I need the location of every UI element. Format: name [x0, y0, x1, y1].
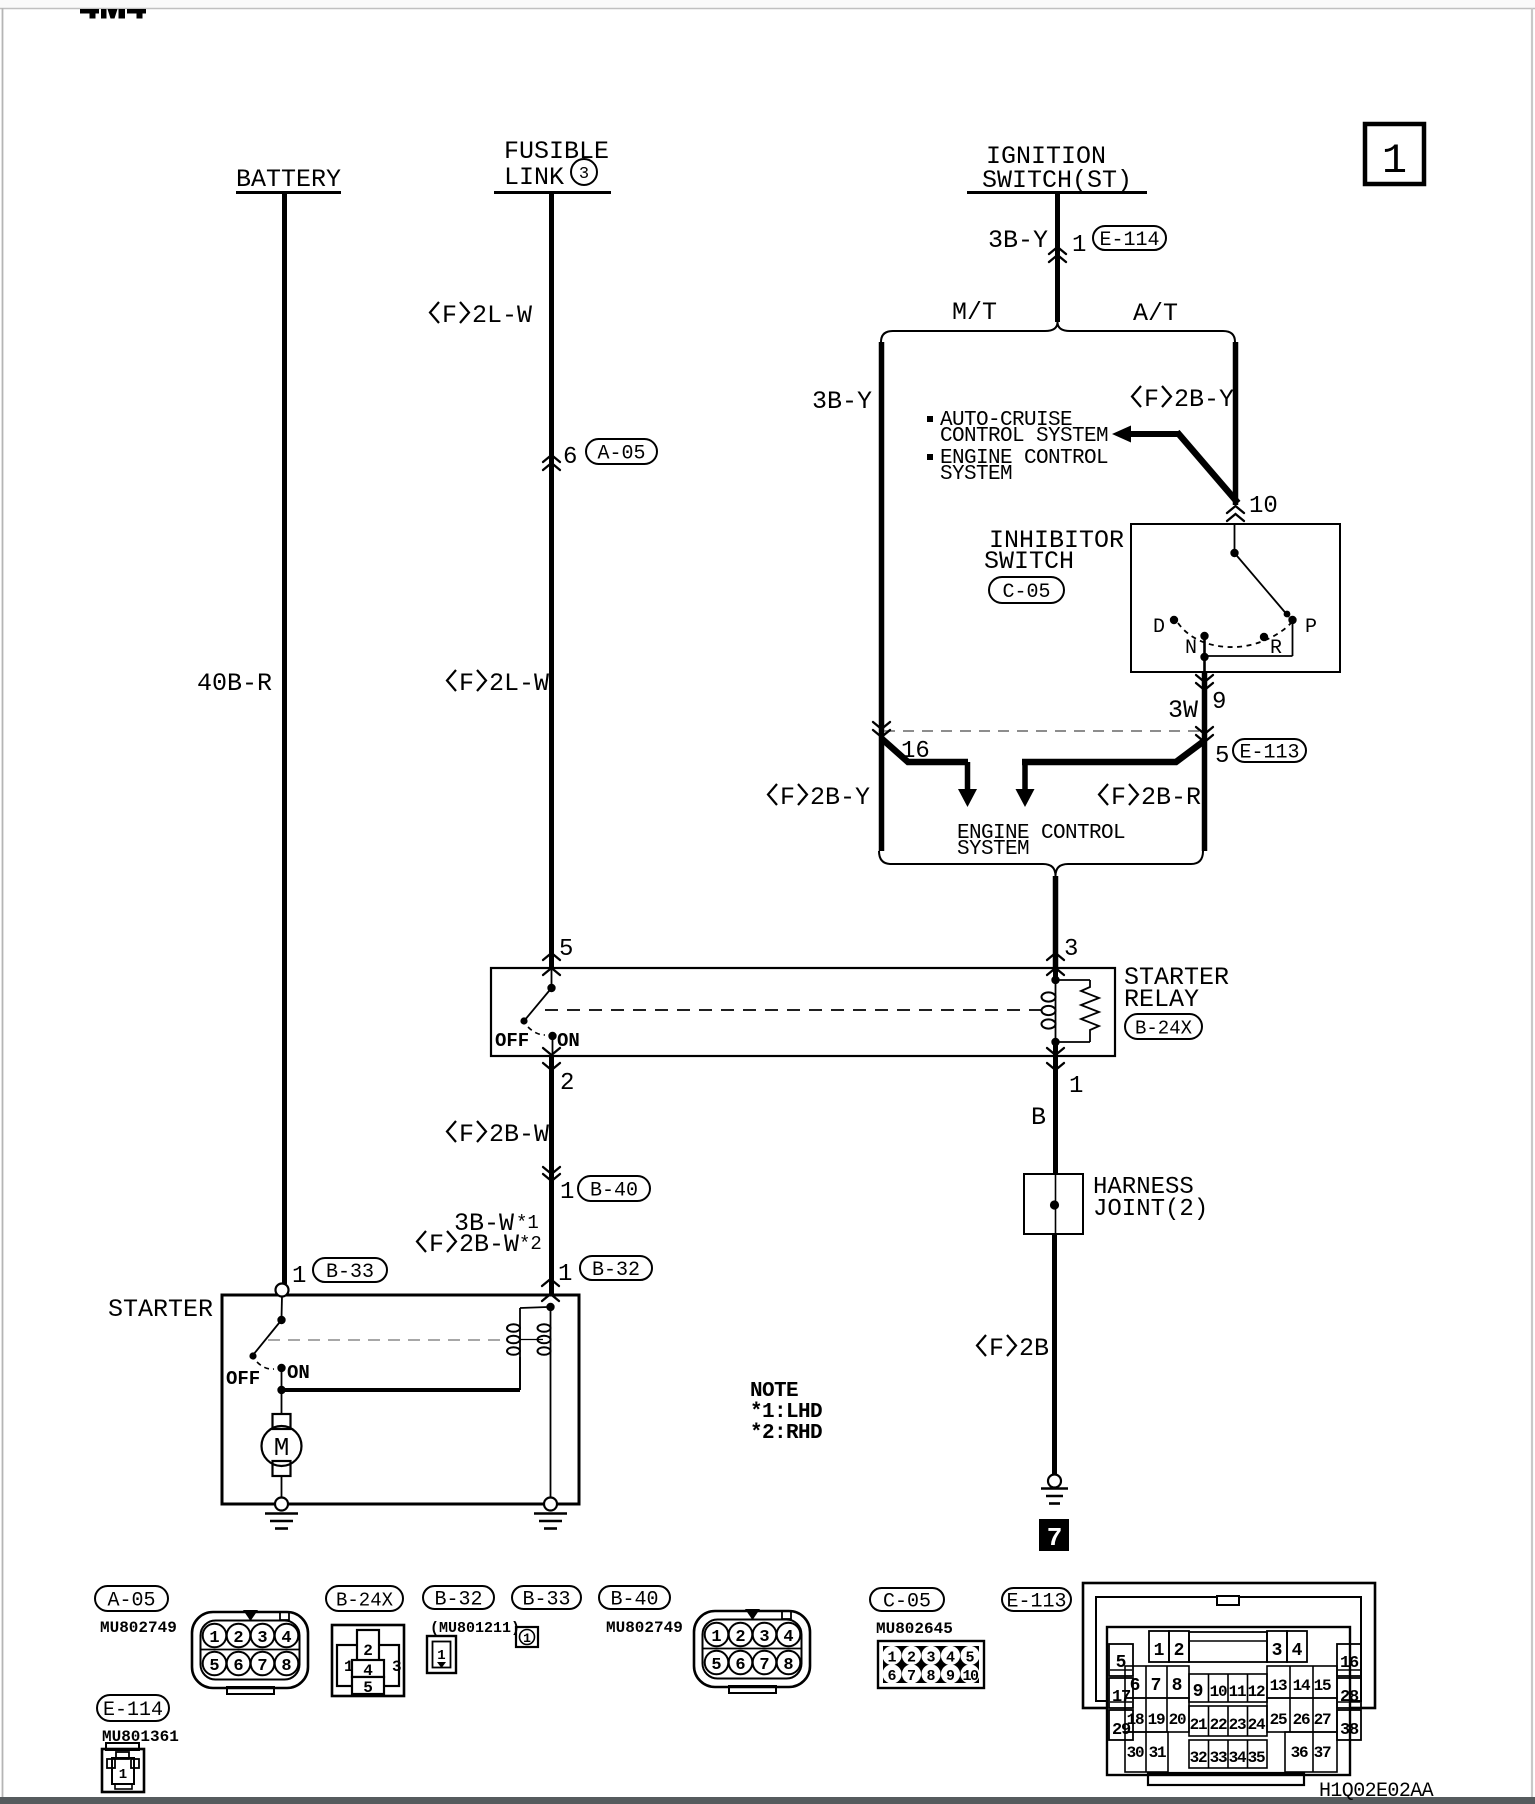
svg-text:3B-Y: 3B-Y	[988, 226, 1048, 255]
relay coil feed	[1053, 968, 1058, 979]
page frame right border	[1531, 8, 1533, 1798]
connector drawing E-114	[106, 1743, 139, 1750]
connector drawing A-05	[192, 1610, 308, 1694]
relay resistor	[1056, 979, 1091, 981]
wire label (F)2B-R right	[1099, 784, 1108, 805]
svg-text:B-40: B-40	[610, 1589, 658, 1612]
starter terminal circle B-33	[276, 1284, 289, 1297]
svg-text:10: 10	[1210, 1683, 1227, 1701]
svg-text:35: 35	[1248, 1749, 1265, 1767]
svg-text:CONTROL SYSTEM: CONTROL SYSTEM	[940, 425, 1108, 448]
svg-text:20: 20	[1169, 1711, 1186, 1729]
arrow from A/T wire to engine control system	[1022, 741, 1204, 762]
svg-text:8: 8	[926, 1668, 935, 1685]
svg-text:37: 37	[1314, 1744, 1331, 1762]
connector label E-114 oval bottom	[97, 1695, 169, 1721]
connector label A-05 oval	[586, 439, 657, 464]
svg-text:MU802749: MU802749	[100, 1619, 177, 1637]
node 10 junction chevrons	[1227, 506, 1244, 513]
hold-in coil	[520, 1307, 548, 1308]
svg-text:*2: *2	[519, 1233, 542, 1255]
connector label E-113 oval	[1233, 739, 1306, 762]
wire label (F)2B-W*2	[417, 1231, 426, 1252]
svg-text:2B-Y: 2B-Y	[810, 783, 870, 812]
svg-text:1: 1	[437, 1648, 445, 1664]
relay switch feed stub	[551, 968, 553, 986]
connector drawing B-32	[427, 1636, 456, 1673]
svg-text:D: D	[1153, 616, 1165, 639]
svg-text:2L-W: 2L-W	[472, 301, 532, 330]
inhibitor switch box	[1131, 524, 1340, 672]
svg-text:H1Q02E02AA: H1Q02E02AA	[1319, 1780, 1434, 1803]
svg-text:1: 1	[1072, 232, 1086, 259]
relay pin 5 chevrons	[543, 953, 560, 960]
svg-text:SWITCH: SWITCH	[984, 547, 1074, 576]
svg-text:6: 6	[233, 1657, 243, 1676]
chevrons pin 9 below inhibitor	[1196, 675, 1213, 682]
ground symbol right	[534, 1512, 567, 1515]
chevrons on M/T wire at E-113	[873, 722, 890, 729]
svg-text:1: 1	[887, 1650, 896, 1667]
relay dashed actuation line	[545, 1009, 1043, 1011]
svg-text:3: 3	[579, 165, 589, 184]
svg-text:3: 3	[257, 1629, 267, 1648]
svg-text:11: 11	[1229, 1683, 1246, 1701]
svg-text:10: 10	[962, 1668, 979, 1685]
connector label B-32 oval bottom	[423, 1586, 494, 1609]
connector label E-113 oval bottom	[1002, 1588, 1071, 1611]
dashed off-on tick starter	[257, 1362, 274, 1369]
wire to auto-cruise arrow	[1112, 426, 1131, 443]
chevrons on A/T wire at E-113	[1196, 727, 1213, 734]
svg-text:6: 6	[1130, 1676, 1141, 1696]
svg-text:2B-W: 2B-W	[459, 1230, 519, 1259]
svg-text:25: 25	[1270, 1711, 1287, 1729]
connector A-05 inline chevron	[543, 455, 560, 462]
wire label (F)2B-Y left	[768, 784, 777, 805]
svg-text:1: 1	[560, 1179, 574, 1206]
svg-text:21: 21	[1190, 1716, 1207, 1734]
connector label B-33 oval	[313, 1258, 387, 1282]
starter solenoid feed dot	[546, 1303, 554, 1311]
svg-text:5: 5	[363, 1679, 373, 1697]
svg-text:F: F	[459, 669, 474, 698]
pull-in coil	[550, 1307, 552, 1358]
svg-text:*2:RHD: *2:RHD	[750, 1422, 822, 1445]
connector drawing C-05	[878, 1641, 984, 1688]
svg-text:BATTERY: BATTERY	[236, 165, 341, 194]
battery terminal bar	[236, 191, 341, 194]
svg-text:A/T: A/T	[1133, 299, 1178, 328]
svg-text:(MU801211): (MU801211)	[430, 1620, 520, 1637]
svg-text:2B-R: 2B-R	[1141, 783, 1201, 812]
svg-text:E-113: E-113	[1006, 1591, 1066, 1614]
svg-text:SWITCH(ST): SWITCH(ST)	[982, 166, 1132, 195]
svg-text:E-114: E-114	[103, 1699, 163, 1722]
svg-text:3: 3	[1272, 1641, 1283, 1661]
svg-text:M: M	[274, 1433, 290, 1463]
svg-text:1: 1	[119, 1767, 127, 1783]
svg-text:SYSTEM: SYSTEM	[957, 838, 1029, 861]
svg-text:22: 22	[1210, 1716, 1227, 1734]
connector label C-05 oval bottom	[870, 1588, 944, 1611]
svg-text:B: B	[1031, 1103, 1046, 1132]
contact P	[1288, 616, 1296, 624]
svg-text:6: 6	[887, 1668, 896, 1685]
svg-text:1: 1	[1154, 1641, 1165, 1661]
switch common node	[1230, 549, 1238, 557]
wire junction to pull-in coil	[282, 1388, 521, 1392]
wire relay pin2 to starter	[549, 1056, 554, 1294]
svg-text:C-05: C-05	[883, 1591, 931, 1614]
svg-text:28: 28	[1340, 1688, 1359, 1707]
svg-text:9: 9	[1193, 1682, 1204, 1702]
connector label B-40 oval	[578, 1176, 650, 1201]
svg-text:B-24X: B-24X	[1135, 1017, 1193, 1039]
starter junction node	[281, 1368, 283, 1392]
wire N down with junction	[1203, 636, 1206, 672]
svg-text:JOINT(2): JOINT(2)	[1093, 1196, 1208, 1223]
connector E-114 inline chevron	[1049, 247, 1066, 254]
wire harness joint to ground	[1052, 1234, 1057, 1475]
connector drawing E-113	[1083, 1583, 1375, 1785]
svg-text:16: 16	[1340, 1654, 1359, 1673]
connector B-32 chevrons into starter	[542, 1279, 559, 1286]
starter motor ground terminal	[275, 1498, 288, 1511]
relay pin 1 chevrons	[1047, 1048, 1064, 1055]
contact R	[1260, 633, 1268, 641]
starter switch arm	[253, 1320, 282, 1355]
svg-text:1: 1	[292, 1263, 306, 1290]
svg-text:4: 4	[946, 1650, 955, 1667]
svg-text:23: 23	[1229, 1716, 1246, 1734]
auto-cruise / engine control reference list	[927, 416, 933, 422]
connector label B-24X oval	[1125, 1014, 1202, 1039]
svg-text:B-32: B-32	[434, 1589, 482, 1612]
svg-text:M/T: M/T	[952, 298, 997, 327]
svg-text:2: 2	[1174, 1641, 1185, 1661]
svg-text:B-24X: B-24X	[336, 1589, 394, 1611]
wire label (F)2L-W lower	[447, 670, 456, 691]
svg-text:B-33: B-33	[326, 1261, 374, 1284]
connector label A-05 oval bottom	[95, 1586, 168, 1611]
svg-text:2B-Y: 2B-Y	[1174, 385, 1234, 414]
svg-text:24: 24	[1248, 1716, 1266, 1734]
connector label B-32 oval	[580, 1256, 652, 1280]
page frame top strip	[0, 0, 1535, 8]
wire M/T branch down	[879, 342, 885, 851]
svg-text:B-40: B-40	[590, 1180, 638, 1203]
svg-text:7: 7	[1047, 1523, 1063, 1553]
wire label (F)2B	[977, 1335, 986, 1356]
svg-text:*1:LHD: *1:LHD	[750, 1401, 822, 1424]
starter solenoid ground terminal	[544, 1498, 557, 1511]
dashed off-on tick	[528, 1027, 545, 1035]
svg-text:C-05: C-05	[1002, 581, 1050, 604]
svg-text:9: 9	[946, 1668, 955, 1685]
svg-text:34: 34	[1229, 1749, 1247, 1767]
svg-text:MU802749: MU802749	[606, 1619, 683, 1637]
svg-text:OFF: OFF	[226, 1368, 260, 1390]
svg-text:10: 10	[1249, 493, 1278, 520]
svg-text:A-05: A-05	[597, 443, 645, 466]
svg-text:1: 1	[1069, 1073, 1083, 1100]
svg-text:B-33: B-33	[522, 1589, 570, 1612]
connector B-40 inline chevrons	[543, 1167, 560, 1174]
ignition terminal bar	[967, 191, 1147, 194]
svg-text:2: 2	[233, 1629, 243, 1648]
svg-text:2L-W: 2L-W	[489, 669, 549, 698]
page number box 1	[1365, 124, 1424, 184]
connector label B-24X oval bottom	[326, 1586, 403, 1611]
svg-text:E-114: E-114	[1099, 229, 1159, 252]
svg-text:12: 12	[1248, 1683, 1265, 1701]
ON contact starter	[277, 1364, 285, 1372]
svg-text:5: 5	[209, 1657, 219, 1676]
arrow from M/T wire to engine control system	[881, 738, 968, 762]
wire A/T branch down to node 10	[1233, 342, 1239, 505]
connector drawing B-40	[694, 1609, 810, 1693]
svg-text:5: 5	[559, 936, 573, 963]
connector drawing B-33	[516, 1627, 538, 1647]
svg-text:6: 6	[563, 444, 577, 471]
wire ignition to M/T A/T brace	[1055, 194, 1060, 322]
ground symbol left	[265, 1512, 298, 1515]
page frame left border	[2, 8, 4, 1798]
svg-text:2: 2	[560, 1070, 574, 1097]
connector label B-40 oval bottom	[599, 1586, 670, 1609]
svg-text:8: 8	[281, 1657, 291, 1676]
svg-text:31: 31	[1149, 1744, 1166, 1762]
wire label (F)2L-W upper	[430, 302, 439, 323]
svg-text:RELAY: RELAY	[1124, 985, 1199, 1014]
wire label (F)2B-Y A/T	[1132, 386, 1141, 407]
svg-text:B-32: B-32	[592, 1259, 640, 1282]
contact D	[1170, 616, 1178, 624]
wire into inhibitor switch	[1234, 524, 1236, 551]
starter dashed actuation line	[268, 1339, 508, 1341]
relay pin 2 chevrons	[543, 1048, 560, 1055]
svg-text:A-05: A-05	[107, 1590, 155, 1613]
svg-text:14: 14	[1293, 1677, 1311, 1695]
ON contact relay	[548, 1032, 556, 1040]
svg-text:5: 5	[1215, 743, 1229, 770]
relay pin 3 chevrons	[1047, 953, 1064, 960]
svg-text:26: 26	[1293, 1711, 1310, 1729]
svg-text:1: 1	[344, 1658, 354, 1676]
svg-text:13: 13	[1270, 1677, 1287, 1695]
relay switch arm	[524, 988, 552, 1021]
svg-text:P: P	[1305, 616, 1317, 639]
circled 3	[571, 159, 597, 185]
relay contact output stub	[552, 1036, 554, 1056]
svg-text:32: 32	[1190, 1749, 1207, 1767]
svg-text:N: N	[1185, 637, 1197, 660]
M/T A/T split brace	[881, 322, 1235, 342]
svg-text:OFF: OFF	[495, 1030, 529, 1052]
fusible terminal bar	[494, 191, 611, 194]
wire fusible link to relay pin 5	[549, 194, 554, 968]
svg-text:1: 1	[1382, 137, 1407, 185]
page frame bottom dark bar	[0, 1797, 1535, 1804]
svg-text:33: 33	[1210, 1749, 1227, 1767]
connector label E-114 oval	[1093, 226, 1166, 250]
svg-text:3: 3	[392, 1658, 402, 1676]
svg-text:2B-W: 2B-W	[489, 1120, 549, 1149]
switch arm to P	[1235, 553, 1290, 617]
svg-text:19: 19	[1148, 1711, 1165, 1729]
starter switch feed	[281, 1296, 284, 1318]
link P down to N output	[1292, 620, 1294, 656]
svg-text:1: 1	[209, 1629, 219, 1648]
ground symbol body earth	[1041, 1487, 1068, 1490]
svg-text:F: F	[442, 301, 457, 330]
starter box	[222, 1295, 579, 1504]
starter motor M	[273, 1414, 291, 1429]
wire label (F)2B-W	[447, 1121, 456, 1142]
connector label B-33 oval bottom	[512, 1586, 581, 1609]
svg-text:3: 3	[926, 1650, 935, 1667]
dashed selector arc D-N-R-P	[1178, 623, 1291, 647]
connector drawing B-24X	[332, 1625, 404, 1696]
svg-text:STARTER: STARTER	[108, 1295, 213, 1324]
dashed tie line between branches	[884, 730, 1200, 732]
svg-text:F: F	[429, 1230, 444, 1259]
svg-text:F: F	[1144, 385, 1159, 414]
svg-text:2: 2	[907, 1650, 916, 1667]
svg-text:*1: *1	[516, 1212, 539, 1234]
svg-text:4: 4	[281, 1629, 291, 1648]
svg-text:2: 2	[363, 1642, 373, 1660]
svg-text:7: 7	[1151, 1676, 1162, 1696]
svg-text:36: 36	[1291, 1744, 1308, 1762]
relay coil output stub	[1053, 1042, 1058, 1056]
cropped logo mark top-left	[80, 9, 146, 19]
relay coil	[1055, 982, 1057, 1042]
svg-text:3B-Y: 3B-Y	[812, 387, 872, 416]
svg-text:7: 7	[907, 1668, 916, 1685]
wire relay pin1 to harness joint	[1053, 1056, 1058, 1174]
wire merge down to relay pin 3	[1053, 876, 1059, 968]
svg-text:F: F	[780, 783, 795, 812]
svg-text:9: 9	[1212, 689, 1226, 716]
svg-text:4: 4	[1292, 1641, 1303, 1661]
wire battery down to starter	[282, 194, 287, 1284]
svg-text:4: 4	[363, 1662, 373, 1680]
svg-text:3: 3	[1064, 936, 1078, 963]
svg-text:F: F	[1111, 783, 1126, 812]
wire inhibitor to engine-control merge	[1202, 672, 1208, 851]
svg-text:1: 1	[558, 1261, 572, 1288]
svg-text:MU802645: MU802645	[876, 1620, 953, 1638]
svg-text:15: 15	[1314, 1677, 1331, 1695]
ground terminal circle	[1048, 1475, 1061, 1488]
svg-text:2B: 2B	[1019, 1334, 1049, 1363]
svg-text:NOTE: NOTE	[750, 1380, 798, 1403]
svg-text:F: F	[989, 1334, 1004, 1363]
connector label C-05 oval	[989, 577, 1064, 603]
svg-text:E-113: E-113	[1239, 742, 1299, 765]
svg-text:30: 30	[1127, 1744, 1144, 1762]
svg-text:LINK: LINK	[504, 163, 564, 192]
starter relay box	[491, 968, 1115, 1056]
svg-text:3W: 3W	[1168, 696, 1198, 725]
contact N	[1200, 632, 1208, 640]
svg-text:F: F	[459, 1120, 474, 1149]
svg-text:8: 8	[1172, 1676, 1183, 1696]
svg-text:ON: ON	[287, 1362, 310, 1384]
svg-text:27: 27	[1314, 1711, 1331, 1729]
merge brace engine control	[879, 851, 1203, 876]
svg-text:38: 38	[1340, 1721, 1359, 1740]
solenoid output to ground	[550, 1358, 552, 1498]
svg-text:5: 5	[965, 1650, 974, 1667]
svg-text:1: 1	[523, 1631, 531, 1646]
svg-text:40B-R: 40B-R	[197, 669, 272, 698]
harness joint box	[1024, 1174, 1083, 1234]
ground reference box 7	[1039, 1519, 1069, 1551]
svg-text:7: 7	[257, 1657, 267, 1676]
svg-text:18: 18	[1127, 1711, 1144, 1729]
svg-text:SYSTEM: SYSTEM	[940, 463, 1012, 486]
